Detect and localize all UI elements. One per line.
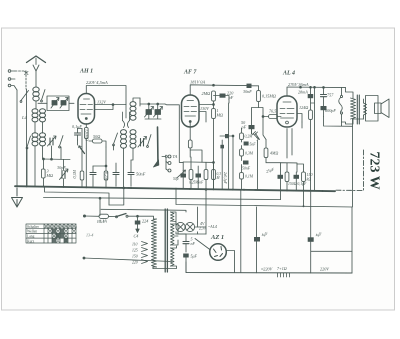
cap mains <box>135 221 141 225</box>
resistor 2M anode <box>212 91 216 101</box>
svg-text:L4: L4 <box>21 115 28 120</box>
tuning bar <box>157 127 160 165</box>
wire 600pF bottom bracket <box>324 117 353 127</box>
cap 5nF ps <box>183 234 189 252</box>
wire <box>171 224 187 262</box>
resistor 0.2M det <box>240 133 244 140</box>
resistor vol <box>189 170 193 180</box>
wire <box>241 156 243 161</box>
node <box>232 135 234 137</box>
wire dashed link <box>15 70 26 72</box>
resistor r6 <box>212 170 216 180</box>
wire left column x82 <box>81 129 83 172</box>
wire AF7 top rail 181V <box>190 85 213 95</box>
wire <box>35 101 37 109</box>
svg-text:30pF: 30pF <box>57 165 66 170</box>
wire 220pF feed <box>228 103 230 189</box>
wire <box>286 182 288 191</box>
cap 50nF det <box>243 161 249 165</box>
wire <box>213 162 215 188</box>
svg-text:50Ω: 50Ω <box>93 134 100 139</box>
dial lamp 2 <box>185 222 194 231</box>
pot arrow <box>177 171 185 178</box>
resistor 3MOhm <box>42 169 46 178</box>
svg-text:220V: 220V <box>320 267 329 272</box>
cap 50pF <box>249 125 255 129</box>
resistor bias <box>285 172 289 182</box>
wire AL4 rail 276V <box>287 87 346 96</box>
wire <box>189 123 191 158</box>
cap 600pF <box>321 106 327 110</box>
node <box>123 187 125 189</box>
node <box>137 215 139 217</box>
resistor 50Ohm <box>93 139 103 143</box>
cap 0.1uF <box>75 129 81 141</box>
cap C <box>90 166 96 186</box>
wire <box>266 140 281 163</box>
wire loop top left of transformer <box>109 188 124 205</box>
wire <box>310 191 312 273</box>
wire <box>295 172 297 191</box>
switch S1 <box>21 91 29 101</box>
wire <box>241 179 243 190</box>
svg-text:Kurz: Kurz <box>27 239 35 243</box>
wire <box>241 146 243 150</box>
wire <box>26 89 28 186</box>
wire <box>205 162 207 188</box>
svg-text:125: 125 <box>132 249 138 253</box>
wire AF7 anode <box>199 104 214 106</box>
resistor 1M <box>212 109 216 119</box>
trimmer 30pF <box>60 159 69 186</box>
osc coil <box>130 102 136 121</box>
wire <box>183 157 191 189</box>
wire lamps top <box>171 212 177 223</box>
svg-text:181V 0A: 181V 0A <box>190 80 205 85</box>
speaker driver <box>375 103 382 114</box>
node <box>300 86 302 88</box>
tube AF7 <box>182 95 200 127</box>
wire <box>252 85 259 87</box>
wire <box>38 102 47 104</box>
svg-text:MΩ: MΩ <box>46 173 54 178</box>
svg-text:kΩ: kΩ <box>307 177 312 182</box>
tube AL4 <box>277 96 297 127</box>
cap 757 <box>321 87 327 106</box>
switch S1b <box>42 90 46 101</box>
HV winding <box>171 224 175 245</box>
heater winding top <box>171 212 175 221</box>
transformer core <box>165 209 167 272</box>
svg-text:220: 220 <box>132 261 138 265</box>
wire pads bottom <box>145 115 161 120</box>
cap 28mA block <box>308 94 314 98</box>
node <box>213 162 215 164</box>
resistor 0.3M det <box>240 149 244 156</box>
transformer core <box>357 95 359 124</box>
fuse 0.1A <box>99 214 109 218</box>
power transformer left winding <box>152 219 157 267</box>
resistor 0.2M <box>104 171 108 180</box>
lamp bracket <box>176 222 198 234</box>
svg-text:5nF: 5nF <box>250 143 257 147</box>
wire trimmerbox to tube <box>69 102 74 104</box>
wire <box>191 162 214 189</box>
resistor 0.4M <box>264 148 268 158</box>
wire <box>278 116 282 118</box>
wire right drop <box>351 207 353 273</box>
trimmer box antenna <box>47 96 69 111</box>
wire AZ1 out <box>226 251 234 273</box>
node <box>99 197 101 199</box>
svg-text:AH 1: AH 1 <box>79 69 93 75</box>
wire <box>280 190 282 199</box>
switch tone <box>339 98 343 112</box>
wire <box>341 88 343 123</box>
wire jog <box>190 150 202 162</box>
wire <box>35 146 43 186</box>
wire <box>251 129 253 134</box>
wire <box>78 129 83 146</box>
cap 220pF <box>220 94 226 98</box>
pointer blade <box>154 160 159 167</box>
wire <box>178 233 206 235</box>
resistor grid stopper <box>269 115 278 119</box>
diode det <box>255 132 260 140</box>
cap 25uF <box>278 175 284 179</box>
wire long mid <box>176 189 352 207</box>
wire <box>342 88 354 124</box>
wire junction bar <box>43 158 71 161</box>
cap ac1 <box>181 174 187 178</box>
transformer taps <box>142 242 148 246</box>
trimmer C1 <box>51 98 59 109</box>
resistor 7ohm taps <box>278 273 290 277</box>
svg-text:600pF: 600pF <box>325 108 336 113</box>
wire cathode <box>85 124 87 187</box>
svg-text:AZ 1: AZ 1 <box>210 234 224 241</box>
cap avc <box>220 145 224 149</box>
svg-text:150: 150 <box>132 255 138 259</box>
wire <box>124 148 134 188</box>
trimmer osc2 <box>138 137 147 148</box>
bus junction dots <box>16 185 324 207</box>
wire <box>89 141 106 147</box>
tube AZ1 <box>210 244 227 261</box>
coil antenna primary <box>32 109 38 122</box>
svg-text:50nF: 50nF <box>136 171 146 176</box>
wire <box>256 207 258 273</box>
wire AL4 cathode bracket <box>281 129 298 176</box>
svg-text:13-4: 13-4 <box>86 233 93 238</box>
wire <box>221 140 223 189</box>
resistor screen <box>309 110 313 120</box>
wire fuse feed <box>85 215 100 217</box>
wire <box>109 215 117 217</box>
svg-text:pF: pF <box>241 125 247 130</box>
wire <box>241 128 243 142</box>
svg-text:110: 110 <box>132 243 138 247</box>
resistor 0.15M <box>257 91 261 102</box>
table fills <box>52 229 68 243</box>
dashdot border <box>336 150 364 191</box>
wire TA <box>162 157 166 170</box>
svg-text:2MΩ: 2MΩ <box>202 91 211 96</box>
wire grid AL4 <box>259 108 269 117</box>
wire <box>93 147 106 171</box>
output secondary <box>364 103 367 115</box>
ground bus <box>15 186 335 191</box>
svg-text:MΩ: MΩ <box>216 113 224 118</box>
wire <box>214 96 230 104</box>
coil IFT1a <box>121 130 127 149</box>
cap 0.1uF out <box>294 175 300 179</box>
node <box>262 116 264 118</box>
wire <box>252 86 259 125</box>
wire to AF7 grid <box>165 104 183 162</box>
wire heater loop <box>153 246 177 269</box>
svg-text:nF: nF <box>191 241 196 246</box>
svg-text:7+1Ω: 7+1Ω <box>277 266 287 271</box>
switch table <box>26 224 76 243</box>
wire speaker return <box>353 119 364 207</box>
wire AH1 anode rail 220V <box>86 86 126 105</box>
wire AH1 screen <box>95 105 114 110</box>
coil L4 <box>33 87 39 101</box>
svg-text:50μ: 50μ <box>173 177 179 181</box>
speaker cone <box>381 99 389 118</box>
svg-text:C4: C4 <box>134 234 139 239</box>
diode det2 <box>253 132 259 140</box>
node <box>112 104 114 106</box>
svg-text:132V: 132V <box>97 100 106 105</box>
wire pads top <box>140 98 165 110</box>
switch mains <box>117 214 127 217</box>
svg-text:757: 757 <box>327 93 334 98</box>
wire W2 <box>44 198 281 216</box>
coil band L primary <box>32 133 38 146</box>
wire AH1 anode <box>95 104 127 106</box>
wire heater AZ1 <box>198 189 207 234</box>
cap 5nF det <box>244 142 249 146</box>
vertical feed 1 <box>240 190 242 273</box>
resistor r5 <box>204 170 208 180</box>
speaker frame <box>366 96 379 122</box>
pointer line <box>84 258 172 262</box>
cap ta coupling <box>225 134 229 138</box>
svg-text:50nF: 50nF <box>242 166 251 170</box>
cap 4uF-1 <box>254 237 260 242</box>
switch osc <box>114 133 118 144</box>
cap 4uF-2 <box>308 237 314 242</box>
wire <box>241 165 243 173</box>
node <box>83 215 85 217</box>
wire <box>182 162 184 189</box>
wire <box>280 179 282 191</box>
wire <box>128 216 154 219</box>
wire <box>252 129 258 190</box>
wire <box>220 136 233 189</box>
svg-text:276V 36mA: 276V 36mA <box>288 82 309 87</box>
antenna terminal A2 <box>8 78 11 81</box>
wire W1 <box>45 187 110 206</box>
wire 220V box top <box>311 250 352 252</box>
wire sec <box>363 99 365 119</box>
TA terminal 3 <box>168 169 171 172</box>
trimmer pad1 <box>145 107 154 118</box>
svg-text:AL 4: AL 4 <box>282 71 295 77</box>
svg-text:pF: pF <box>228 95 234 100</box>
svg-text:224: 224 <box>142 219 148 224</box>
svg-text:12345678: 12345678 <box>45 225 79 229</box>
wire 132V <box>199 112 206 123</box>
cap 5uF ps <box>183 254 189 258</box>
cap ac2 <box>196 174 202 178</box>
wire <box>213 119 215 189</box>
wire <box>310 87 312 94</box>
heater winding bottom <box>171 248 175 266</box>
TA terminal 1 <box>168 155 171 158</box>
wire <box>213 101 215 109</box>
svg-text:≈220V: ≈220V <box>261 267 273 272</box>
svg-text:130V: 130V <box>200 106 209 111</box>
resistor 1.0MOhm <box>85 128 89 139</box>
coil antenna secondary top <box>40 109 46 122</box>
resistor 0.1M det <box>240 173 244 180</box>
cap 50nF-1 <box>113 163 119 186</box>
tube AH1 <box>78 94 95 125</box>
svg-text:5μF: 5μF <box>191 254 198 259</box>
antenna terminal E <box>8 84 11 87</box>
coil IFT1b <box>130 130 136 149</box>
resistor AF7 cathode <box>188 140 192 148</box>
svg-text:124Ω: 124Ω <box>299 105 308 110</box>
coil band L secondary <box>40 133 46 146</box>
wire osc top <box>133 98 140 102</box>
svg-text:4MΩ: 4MΩ <box>270 151 278 156</box>
svg-text:Wellen: Wellen <box>27 230 37 234</box>
svg-text:28mA: 28mA <box>298 90 308 95</box>
arrow C4 <box>137 216 139 230</box>
wire mid2 <box>101 209 186 212</box>
bottom bus <box>153 262 352 273</box>
svg-text:723 W: 723 W <box>367 152 382 190</box>
wire <box>323 110 325 116</box>
resistor 0.3M <box>80 171 84 180</box>
trimmer C2 <box>60 98 68 109</box>
wire <box>297 114 302 123</box>
antenna <box>27 56 46 63</box>
svg-text:AF 7: AF 7 <box>183 70 197 76</box>
trimmer C osc <box>48 136 57 146</box>
switch S2 <box>27 136 31 147</box>
wire rail to 30nF <box>214 84 247 86</box>
switch osc2 <box>148 135 152 146</box>
wire <box>16 90 18 186</box>
dial lamp 1 <box>176 222 185 231</box>
wire column x263 down <box>263 117 266 140</box>
AZ1 anode wire <box>174 236 210 250</box>
wire <box>197 207 199 222</box>
output transformer primary <box>351 98 356 119</box>
wire neck <box>35 122 43 133</box>
resistor 150 <box>302 172 306 182</box>
switch S3 <box>60 136 64 147</box>
svg-text:E5-F: E5-F <box>96 219 106 224</box>
antenna terminal A1 <box>8 70 11 73</box>
cap 30nF <box>247 84 252 88</box>
svg-text:5nF: 5nF <box>198 181 205 185</box>
pot hum <box>79 146 85 154</box>
ground <box>12 188 23 207</box>
node <box>213 104 215 106</box>
node <box>213 84 215 86</box>
wire <box>311 87 315 191</box>
svg-text:Lang: Lang <box>27 234 35 238</box>
svg-text:~AL4: ~AL4 <box>208 224 217 229</box>
IFT1 neck <box>123 121 130 128</box>
table hatch <box>44 224 76 243</box>
node <box>205 189 207 191</box>
wire <box>153 219 157 269</box>
svg-text:TA: TA <box>173 154 178 159</box>
wire <box>297 122 304 206</box>
TA terminal 2 <box>168 162 171 165</box>
svg-text:Schalter: Schalter <box>27 225 40 229</box>
svg-text:30nF: 30nF <box>243 89 252 94</box>
trimmer pad2 <box>154 107 163 118</box>
cap 50nF-2 <box>128 160 134 186</box>
